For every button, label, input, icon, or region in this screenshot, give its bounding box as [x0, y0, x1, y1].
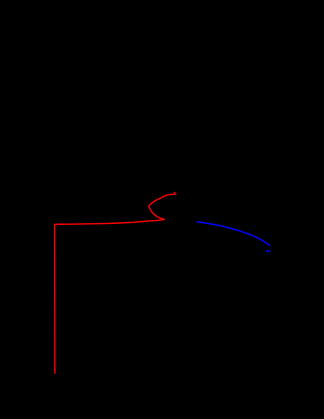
blue end marker dot 2 [269, 250, 271, 252]
blue branch curve [197, 222, 269, 246]
blue end marker dot 1 [267, 250, 269, 252]
red equilibrium curve (vertical branch, horizontal branch and S-fold) [55, 194, 176, 373]
red tip dot [174, 192, 176, 194]
